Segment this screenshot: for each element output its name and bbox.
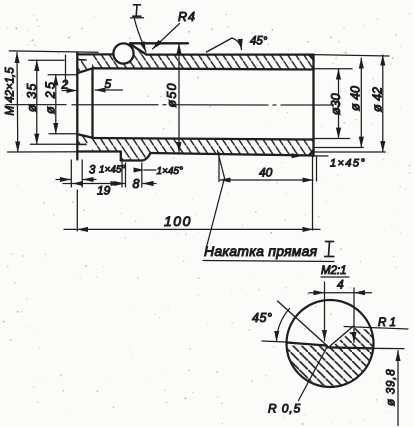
svg-text:ø 40: ø 40 [349,86,363,111]
detail surface line left [287,343,327,346]
right face chamfer bottom [309,150,314,155]
dim d50 [178,44,180,153]
bore bottom [93,138,314,140]
svg-text:100: 100 [164,213,192,229]
centerline [6,104,333,106]
svg-text:R 1: R 1 [378,317,396,329]
detail circle [287,300,374,387]
detail surface line right [327,347,375,348]
right face [312,55,314,156]
dim 40 [219,153,313,182]
dim d39.8 [397,351,399,426]
svg-text:ø 39,8: ø 39,8 [386,369,398,406]
dim 5 [95,89,123,91]
detail hatch tooth [332,328,374,348]
dim 8 [111,163,156,187]
bottom notch curve [142,153,151,161]
detail surface ext right [374,347,404,349]
svg-text:4: 4 [337,278,344,292]
left face [76,53,78,160]
svg-text:45°: 45° [250,36,268,48]
dim 3 and 1x45 left [56,179,96,181]
svg-text:R4: R4 [178,10,196,24]
knurl band top line [130,42,188,44]
svg-text:ø 42: ø 42 [371,87,385,112]
chamfer 45 annotation [207,38,233,52]
leader R4 [153,24,180,50]
svg-text:ø30: ø30 [329,93,343,115]
svg-text:1×45°: 1×45° [157,166,184,177]
bottom notch bottom [121,159,142,161]
groove circle mask [114,44,132,62]
ext verticals right face [313,156,317,230]
svg-text:ø 25: ø 25 [44,80,58,114]
svg-text:3: 3 [89,165,96,177]
dim 2 [62,55,77,91]
svg-text:8: 8 [133,177,140,191]
hatch bottom wall [92,138,314,161]
counterbore chamfer top [79,68,93,72]
counterbore top line [78,59,86,61]
right face chamfer top [309,55,314,60]
detail 45 diagonal [278,301,329,347]
dim d35 [29,60,76,144]
detail hatch below surface [287,346,374,386]
bore top [93,68,314,69]
hatch sliver under knurl chamfer [129,45,146,55]
svg-text:5: 5 [105,77,112,91]
dim d40 [314,58,364,148]
svg-text:Накатка прямая: Накатка прямая [204,243,318,259]
bottom outer line [151,153,314,156]
dim d25 [48,75,78,134]
counterbore bottom line [78,143,86,145]
hatch left cap bottom wedge [78,134,92,145]
detail dim 4 verticals [325,282,355,343]
svg-text:45°: 45° [252,311,272,325]
detail 45 arc [277,309,290,342]
top outer thread [77,53,113,55]
detail dim 4 line [309,292,372,294]
label I top [133,5,141,16]
label 1x45 mid [144,169,156,171]
detail tooth flank [330,326,354,346]
dim 100 [64,190,320,231]
svg-text:М2:1: М2:1 [321,265,347,277]
top outer line [147,53,314,55]
svg-text:ø 35: ø 35 [25,83,39,112]
counterbore shoulder [91,68,93,138]
dim 19 [63,160,122,187]
svg-text:19: 19 [97,184,111,198]
detail 45 horizontal leg [262,341,292,342]
groove circle R4 [113,43,133,63]
counterbore chamfer bottom [79,135,93,138]
svg-text:ø50: ø50 [165,82,179,107]
hatch left cap top wedge [78,60,92,72]
detail crest R1 line [344,327,408,330]
knurl band chamfer [130,44,147,55]
dim d42 [314,55,389,152]
knurl leader [206,151,225,250]
svg-text:М 42×1,5: М 42×1,5 [5,67,17,116]
dim d30 [314,69,352,139]
part outline [77,43,313,160]
svg-text:R 0,5: R 0,5 [268,402,301,416]
leader R05 [299,348,327,401]
svg-text:2: 2 [61,78,69,92]
svg-text:40: 40 [259,166,273,180]
hatch top wall [92,55,314,70]
label 1x45 right [302,155,328,157]
bottom notch left [120,152,122,161]
svg-text:1×45°: 1×45° [330,158,366,170]
bottom outer thread [77,150,121,152]
label I detail [325,242,334,257]
leader I [135,19,147,52]
dim M42x1.5 [8,51,98,152]
